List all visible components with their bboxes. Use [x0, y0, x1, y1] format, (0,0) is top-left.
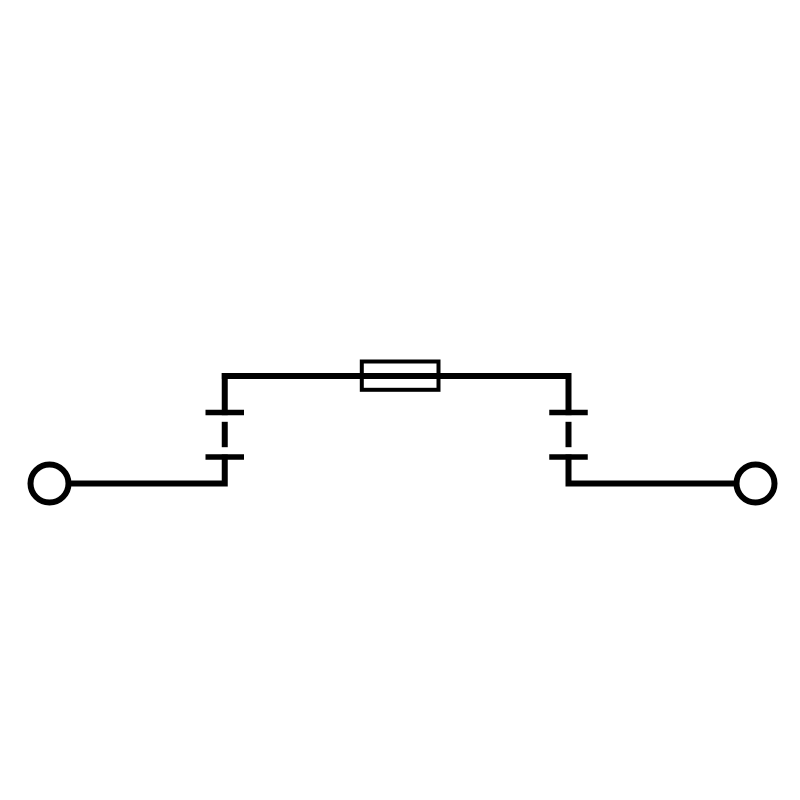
contact bar left lower: [206, 454, 245, 460]
fuse-link lead right middle segment: [566, 422, 572, 447]
contact bar left upper: [206, 410, 245, 416]
fuse F1 body: [362, 362, 439, 390]
wire right upper vertical: [566, 373, 572, 415]
wire right horizontal: [566, 481, 738, 487]
wire left upper vertical: [222, 373, 228, 415]
contact bar right upper: [549, 410, 588, 416]
fuse-link lead left middle segment: [222, 422, 228, 447]
wire left lower vertical: [222, 454, 228, 486]
wire top horizontal: [222, 373, 572, 379]
terminal circle right: [737, 465, 775, 503]
contact bar right lower: [549, 454, 588, 460]
wire left horizontal: [68, 481, 228, 487]
wire right lower vertical: [566, 454, 572, 486]
terminal circle left: [31, 465, 69, 503]
